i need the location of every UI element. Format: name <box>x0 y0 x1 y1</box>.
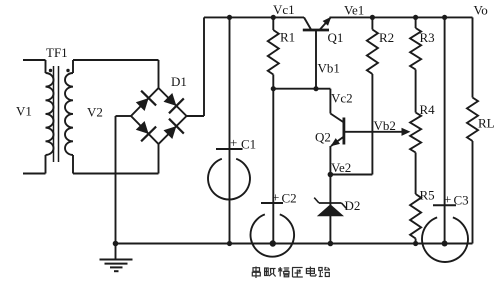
zener D2 bar left tick <box>314 198 319 203</box>
wire to ground symbol <box>115 244 117 259</box>
wire Ve2 row <box>330 174 372 176</box>
svg-text:+: + <box>444 192 451 207</box>
node Vb1 <box>313 86 318 91</box>
svg-text:R3: R3 <box>420 30 435 45</box>
node D2 ground <box>328 241 334 247</box>
transistor Q1 collector lead <box>304 17 311 30</box>
node ground junction <box>113 241 119 247</box>
wire Ve2 to ground rail through D2 <box>329 175 331 244</box>
wire secondary top drop <box>72 60 74 73</box>
svg-text:+: + <box>272 190 279 205</box>
wire rail to C3 <box>444 17 446 205</box>
node R3 top junction <box>413 15 418 20</box>
transformer core line right <box>58 66 60 162</box>
wire Q2 base to R4 wiper <box>344 131 403 133</box>
node C2 ground <box>270 240 276 246</box>
svg-text:Vc1: Vc1 <box>273 2 295 17</box>
transistor Q1 base bar <box>303 29 329 32</box>
wire secondary top lead <box>73 59 159 61</box>
wire R1 to Vb1 row <box>272 75 274 89</box>
svg-text:D1: D1 <box>171 74 187 89</box>
resistor RL <box>467 98 478 142</box>
diode D1a (left->top) <box>136 98 149 111</box>
wire ground rail <box>116 243 473 245</box>
svg-text:C2: C2 <box>282 191 297 206</box>
node Vc1 <box>271 15 276 20</box>
wire primary top lead <box>23 59 46 61</box>
ground symbol <box>100 260 133 272</box>
wire Q2 emitter to Ve2 <box>329 146 331 175</box>
node C3 top junction <box>442 15 447 20</box>
wire C3 to ground rail <box>444 205 446 243</box>
resistor R3 <box>410 28 421 70</box>
wire primary bottom lead <box>23 173 46 175</box>
capacitor C1 body circle <box>208 159 250 200</box>
svg-text:RL: RL <box>478 116 495 131</box>
zener D2 bar right tick <box>342 203 347 208</box>
transistor Q1 emitter lead <box>320 18 331 30</box>
node Ve2 <box>328 172 334 178</box>
wire Q1 base down to Vb1 <box>315 30 317 89</box>
wire R4 to R5 <box>415 153 417 195</box>
inductor V2 secondary winding <box>65 73 73 155</box>
wire bridge minus down to ground rail <box>115 116 117 244</box>
resistor R2 <box>367 30 378 75</box>
capacitor C2 body circle <box>250 214 294 256</box>
transistor Q1 emitter arrow <box>323 17 332 26</box>
svg-text:C3: C3 <box>454 193 469 208</box>
wire secondary bottom lead <box>73 173 159 175</box>
transistor Q2 collector lead <box>330 114 344 123</box>
node C1 top junction <box>227 15 232 20</box>
zener D2 triangle <box>317 204 344 216</box>
wire Vb1 row <box>273 88 316 90</box>
capacitor C1 top plate <box>216 148 243 150</box>
wire top rail right segment (Ve1/Vo) <box>330 16 473 18</box>
transistor Q2 emitter arrow <box>331 138 340 146</box>
svg-text:Vc2: Vc2 <box>331 91 353 106</box>
transistor Q2 base bar <box>342 118 345 145</box>
diode D1c (left->bottom) <box>136 121 149 134</box>
svg-text:V2: V2 <box>87 105 103 120</box>
node Ve1 <box>370 15 375 20</box>
polarity dot primary <box>49 69 52 72</box>
svg-text:TF1: TF1 <box>46 45 68 60</box>
svg-text:Ve1: Ve1 <box>344 2 364 17</box>
wire R5 to ground rail <box>415 239 417 244</box>
svg-text:V1: V1 <box>16 104 32 119</box>
wire C2 to ground rail <box>272 203 274 244</box>
capacitor C2 top plate <box>261 202 283 204</box>
potentiometer R4 wiper arrow <box>402 128 411 136</box>
node C3 ground <box>442 241 448 247</box>
wire top rail left segment (Vc1) <box>204 16 304 18</box>
bridge rectifier D1 diamond <box>131 88 187 144</box>
wire down to C2 <box>272 89 274 203</box>
potentiometer R4 <box>410 113 421 153</box>
wire primary top drop <box>45 60 47 73</box>
wire bridge plus lead <box>187 115 205 117</box>
wire Vo down to RL <box>472 17 474 97</box>
wire R3 to R4 <box>415 70 417 113</box>
inductor V1 primary winding <box>46 73 54 155</box>
node C1 ground <box>227 241 232 246</box>
svg-text:Vb2: Vb2 <box>374 118 396 133</box>
wire Vc1 to R1 <box>272 17 274 30</box>
wire bridge minus lead <box>116 115 132 117</box>
svg-text:+: + <box>230 135 237 150</box>
diode D1d (bottom->right) <box>164 126 177 139</box>
wire rail to C1 <box>229 17 231 149</box>
capacitor C3 top plate <box>433 204 456 206</box>
svg-text:R5: R5 <box>420 188 435 203</box>
svg-text:Vo: Vo <box>474 3 488 18</box>
capacitor C3 body circle <box>422 217 468 262</box>
transformer core line left <box>53 66 55 162</box>
svg-text:D2: D2 <box>345 198 361 213</box>
polarity dot secondary <box>66 69 69 72</box>
resistor R5 <box>410 194 421 239</box>
wire primary bottom drop <box>45 155 47 174</box>
wire secondary bottom drop <box>72 155 74 174</box>
svg-text:Ve2: Ve2 <box>331 160 351 175</box>
wire rail to R3 <box>415 17 417 28</box>
svg-text:C1: C1 <box>241 137 256 152</box>
diode D1b (top->right) <box>164 93 177 106</box>
wire Vb1 to Vc2 corner <box>316 88 330 90</box>
wire bridge plus up to top rail <box>203 17 205 116</box>
svg-text:R1: R1 <box>280 30 295 45</box>
resistor R1 <box>268 30 279 75</box>
wire Vc2 down <box>329 89 331 114</box>
node R5 ground <box>413 241 418 246</box>
node R1 bottom / C2 top <box>271 86 276 91</box>
wire R2 bottom to Ve2 row <box>371 74 373 175</box>
wire RL to ground rail <box>472 141 474 244</box>
svg-text:Q2: Q2 <box>315 130 331 145</box>
wire to bridge bottom vertex <box>158 144 160 174</box>
svg-text:Q1: Q1 <box>328 30 344 45</box>
wire secondary to bridge top <box>158 60 160 88</box>
zener D2 cathode bar <box>319 202 342 204</box>
svg-text:R4: R4 <box>420 102 436 117</box>
svg-text:R2: R2 <box>379 30 394 45</box>
wire Ve1 to R2 <box>371 17 373 29</box>
transistor Q2 emitter lead <box>331 137 344 147</box>
svg-text:Vb1: Vb1 <box>318 61 340 76</box>
caption text 串联稳压电路 (drawn strokes) <box>252 267 330 279</box>
wire C1 to ground rail <box>229 149 231 244</box>
